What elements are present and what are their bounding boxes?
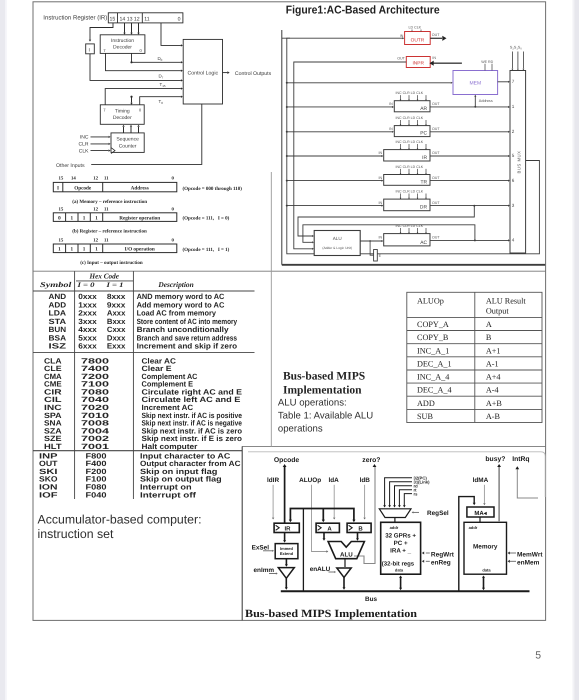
svg-text:ISZ: ISZ	[49, 342, 67, 351]
wire decoder D0 to control logic	[132, 53, 181, 62]
register INPR	[397, 56, 436, 68]
register B	[347, 523, 371, 532]
svg-text:A-1: A-1	[486, 359, 499, 368]
wire PC out to bus mux input 2	[430, 131, 508, 133]
wire GPR data to bus (bidirectional)	[400, 577, 402, 589]
hex table header underline	[33, 290, 255, 292]
svg-text:1: 1	[95, 215, 98, 221]
wire timing T0 to control logic	[140, 97, 181, 105]
wire timing T15 to control logic	[105, 89, 181, 105]
svg-text:Halt computer: Halt computer	[142, 442, 198, 451]
svg-text:enImm: enImm	[254, 567, 275, 574]
register file 32 GPRs	[381, 522, 421, 574]
svg-text:A+1: A+1	[486, 346, 501, 355]
register MA	[467, 507, 494, 517]
wire ldB control	[364, 485, 366, 518]
wire bus feed to AR	[287, 106, 392, 108]
wire bus feed to IR	[287, 155, 382, 157]
svg-text:ldIR: ldIR	[267, 477, 279, 484]
register IR (mips)	[274, 523, 299, 532]
svg-text:AR: AR	[420, 106, 427, 112]
svg-text:4: 4	[512, 238, 515, 243]
svg-text:Description: Description	[157, 280, 193, 289]
register PC	[389, 116, 440, 137]
wire busy? up from memory	[498, 467, 500, 522]
svg-text:PC: PC	[420, 131, 427, 137]
svg-text:IN: IN	[379, 236, 383, 240]
wire other inputs to control logic bottom	[91, 104, 202, 164]
register OUTR	[400, 26, 440, 45]
svg-text:INC CLR LD CLK: INC CLR LD CLK	[396, 91, 424, 95]
svg-text:1: 1	[95, 247, 98, 253]
wire bus-mux output feedback loop	[287, 38, 540, 254]
hex table group 1 rows	[49, 292, 238, 350]
wire enALU driver to bus	[343, 577, 345, 588]
slide outer border	[33, 2, 546, 621]
svg-text:(Adder & Logic Unit): (Adder & Logic Unit)	[322, 246, 352, 250]
svg-text:Register operation: Register operation	[119, 215, 160, 221]
svg-text:Table 1: Available ALU: Table 1: Available ALU	[278, 410, 373, 421]
svg-text:OUT: OUT	[432, 151, 440, 155]
svg-text:1: 1	[83, 247, 86, 253]
svg-text:IN: IN	[432, 56, 436, 60]
svg-text:Decoder: Decoder	[113, 45, 132, 51]
svg-text:WE RD: WE RD	[481, 60, 493, 64]
svg-text:Address: Address	[479, 99, 493, 103]
svg-text:zero?: zero?	[362, 457, 380, 464]
driver enALU (tri-state)	[337, 568, 351, 577]
wire B to ALU	[357, 533, 359, 540]
svg-text:5: 5	[535, 649, 541, 661]
wire bus feed to PC	[287, 131, 392, 133]
svg-text:Sequence: Sequence	[116, 137, 139, 143]
svg-text:7001: 7001	[81, 442, 110, 451]
wire I to control logic	[90, 54, 181, 81]
wire OUTR out arrow	[430, 37, 442, 39]
svg-text:14 13 12: 14 13 12	[120, 16, 140, 22]
node mux input numbers	[512, 79, 515, 243]
memory unit	[464, 522, 507, 574]
wire ALUOp control to ALU	[312, 485, 327, 552]
wire IR(14-12) to instruction decoder (3 lines)	[123, 23, 139, 35]
svg-text:enALU: enALU	[310, 566, 331, 573]
wires mux select lines	[511, 52, 524, 71]
svg-text:1: 1	[71, 215, 74, 221]
svg-text:B: B	[486, 333, 492, 342]
mux RegSel	[379, 509, 411, 518]
wire INC	[91, 136, 109, 138]
svg-text:A: A	[486, 320, 492, 329]
svg-text:14: 14	[71, 175, 76, 181]
svg-text:DR: DR	[420, 205, 428, 211]
svg-text:rs: rs	[414, 491, 419, 496]
svg-text:A-4: A-4	[486, 386, 499, 395]
svg-text:11: 11	[144, 16, 149, 22]
hex table divider line 1	[33, 352, 255, 354]
flip-flop I	[86, 44, 95, 54]
svg-text:SUB: SUB	[417, 412, 433, 421]
wire control outputs	[223, 72, 228, 74]
register format-c field box 1111|I/O operation	[53, 244, 177, 253]
svg-text:(Opcode = 111, I = 1): (Opcode = 111, I = 1)	[183, 247, 230, 253]
hex table column dividers	[74, 291, 76, 499]
svg-text:busy?: busy?	[485, 456, 505, 463]
wire INPR out down to ALU	[294, 62, 407, 249]
svg-text:I/O operation: I/O operation	[125, 247, 155, 253]
wire bus riser to distribution	[302, 509, 304, 592]
svg-text:OUT: OUT	[432, 102, 440, 106]
svg-text:Output: Output	[486, 307, 509, 316]
wire MEM address from AR bus	[474, 97, 476, 107]
wire distribution to IR/A/B	[290, 509, 354, 522]
wire TR out to bus mux input 6	[430, 180, 508, 182]
wire AC out branch to ALU input 2	[303, 225, 475, 243]
wire CLR	[91, 143, 109, 145]
register AR	[389, 91, 440, 112]
wire ldA control	[333, 485, 335, 518]
divider under instruction-format section	[33, 270, 546, 272]
svg-text:COPY_B: COPY_B	[417, 333, 449, 342]
sequence counter U4	[111, 133, 144, 153]
svg-text:ALU Result: ALU Result	[486, 296, 527, 305]
wire ALU to driver	[344, 559, 346, 567]
svg-text:12: 12	[93, 237, 98, 243]
svg-text:(32-bit regs: (32-bit regs	[382, 561, 415, 568]
svg-text:Bus: Bus	[365, 596, 378, 603]
svg-text:INC CLR LD CLK: INC CLR LD CLK	[396, 116, 424, 120]
svg-text:12: 12	[93, 206, 98, 212]
svg-text:Memory: Memory	[473, 544, 498, 551]
svg-text:RegSel: RegSel	[427, 510, 449, 517]
wire bus riser to MA	[459, 497, 474, 592]
svg-text:IN: IN	[379, 151, 383, 155]
svg-text:MA◂: MA◂	[474, 510, 487, 517]
svg-text:OUT: OUT	[432, 33, 440, 37]
driver enImm (tri-state)	[278, 568, 294, 579]
svg-text:A+4: A+4	[486, 373, 501, 382]
svg-text:15: 15	[59, 237, 64, 243]
table ALUOp	[407, 292, 542, 422]
wire enImm driver to bus	[285, 578, 287, 588]
figure1 frame left/bottom	[281, 30, 283, 265]
svg-text:I: I	[89, 47, 90, 53]
svg-text:PC +: PC +	[394, 540, 408, 547]
svg-text:(a) Memory – reference instruc: (a) Memory – reference instruction	[72, 199, 147, 205]
svg-text:MemWrt: MemWrt	[517, 551, 543, 558]
svg-text:IN: IN	[389, 127, 393, 131]
svg-text:enReg: enReg	[431, 560, 451, 567]
register IR (bit-field box 15|14 13 12|11..0)	[108, 13, 183, 23]
register DR	[379, 190, 441, 211]
svg-text:A-B: A-B	[486, 412, 501, 421]
svg-text:32 GPRs +: 32 GPRs +	[385, 532, 416, 539]
svg-text:DEC_A_4: DEC_A_4	[417, 386, 452, 395]
wire DR out to bus mux input 3	[430, 205, 508, 207]
timing decoder U3	[100, 105, 144, 125]
vertical divider left of mips picture	[241, 446, 243, 620]
svg-text:INC_A_4: INC_A_4	[417, 373, 449, 382]
mux BUS MUX	[510, 71, 526, 254]
svg-text:HLT: HLT	[44, 442, 62, 451]
flip-flop E	[370, 241, 373, 255]
svg-text:A+B: A+B	[486, 399, 503, 408]
svg-text:Extend: Extend	[280, 551, 294, 556]
divider above INP row / mips picture	[33, 450, 242, 452]
svg-text:A: A	[327, 526, 332, 533]
svg-text:OUT: OUT	[397, 57, 405, 61]
register IR	[379, 140, 441, 161]
svg-text:ldA: ldA	[329, 477, 340, 484]
svg-text:IOF: IOF	[39, 490, 58, 499]
svg-text:addr: addr	[390, 525, 399, 530]
vertical divider right of hex table	[270, 172, 272, 446]
wire RegSel to GPR addr	[394, 518, 396, 523]
wire ldMA control	[483, 485, 485, 503]
svg-text:F040: F040	[86, 490, 107, 499]
svg-text:ALUOp: ALUOp	[417, 296, 444, 305]
svg-text:12: 12	[93, 175, 98, 181]
svg-text:IN: IN	[379, 176, 383, 180]
svg-text:Other Inputs: Other Inputs	[56, 163, 85, 169]
svg-text:IRA + _: IRA + _	[390, 547, 411, 554]
svg-text:B: B	[358, 526, 363, 533]
svg-text:(Opcode = 111, I = 0): (Opcode = 111, I = 0)	[183, 216, 230, 222]
svg-text:Opcode: Opcode	[274, 457, 300, 464]
wire IntRq	[517, 469, 538, 499]
register A	[316, 523, 339, 532]
svg-text:IN: IN	[379, 201, 383, 205]
svg-text:TR: TR	[420, 179, 427, 185]
svg-text:5: 5	[512, 153, 515, 158]
wire IR out to bus mux input 5	[430, 155, 508, 157]
svg-text:instruction set: instruction set	[38, 527, 114, 541]
svg-text:DEC_A_1: DEC_A_1	[417, 359, 452, 368]
svg-text:6xxx: 6xxx	[78, 342, 97, 351]
left viewer strip	[0, 0, 5, 700]
svg-text:addr: addr	[469, 525, 478, 530]
wire memory data to bus (bidirectional)	[483, 577, 485, 589]
register TR	[379, 165, 441, 185]
svg-text:LD CLK: LD CLK	[409, 26, 422, 30]
svg-text:IN: IN	[389, 102, 393, 106]
svg-text:INC: INC	[80, 135, 89, 141]
svg-text:I: I	[57, 186, 59, 192]
right viewer strip	[573, 0, 575, 700]
svg-text:INC_A_1: INC_A_1	[417, 346, 449, 355]
svg-text:15: 15	[59, 206, 64, 212]
wire AR out to bus mux input 1	[430, 106, 508, 108]
svg-text:IntRq: IntRq	[512, 456, 529, 463]
svg-text:INC CLR LD CLK: INC CLR LD CLK	[396, 140, 424, 144]
svg-text:15: 15	[59, 175, 64, 181]
svg-text:ALUOp: ALUOp	[299, 477, 321, 484]
wire zero? up from ALU	[354, 467, 375, 564]
register AC	[379, 224, 441, 246]
wire IR(11-0) to control logic	[161, 23, 181, 46]
wire DR out branch to ALU input 1	[298, 206, 474, 236]
svg-text:1: 1	[83, 215, 86, 221]
svg-text:11: 11	[104, 175, 109, 181]
ALU (Adder and Logic Unit)	[314, 231, 360, 256]
mips picture frame top (rounded)	[248, 452, 545, 497]
svg-text:E: E	[379, 254, 382, 258]
svg-text:INC CLR LD CLK: INC CLR LD CLK	[396, 190, 424, 194]
wire A to ALU	[323, 533, 325, 540]
wire AC out to bus mux input 4	[430, 239, 508, 241]
svg-text:(Opcode = 000 through 110): (Opcode = 000 through 110)	[183, 186, 243, 192]
svg-text:Exxx: Exxx	[107, 342, 126, 351]
instruction decoder U1	[100, 35, 145, 54]
svg-text:OUT: OUT	[432, 127, 440, 131]
wire CLK with clock wedge	[91, 150, 109, 152]
svg-text:1: 1	[58, 247, 61, 253]
wire IR(15) to I flip-flop	[90, 23, 113, 40]
hex table group 2 rows	[44, 356, 242, 451]
wire INPR input from right	[434, 62, 462, 64]
svg-text:ALU operations:: ALU operations:	[278, 397, 347, 408]
wire MEM out to bus mux input 7	[498, 81, 508, 83]
svg-text:OUT: OUT	[432, 236, 440, 240]
svg-text:11: 11	[104, 237, 109, 243]
svg-text:IR: IR	[422, 155, 427, 161]
svg-text:COPY_A: COPY_A	[417, 320, 449, 329]
svg-text:enMem: enMem	[517, 560, 540, 567]
svg-text:Figure1:AC-Based Architecture: Figure1:AC-Based Architecture	[286, 5, 440, 17]
svg-text:BUS MUX: BUS MUX	[517, 150, 522, 173]
wire bus feed to OUTR	[282, 37, 403, 39]
svg-text:Address: Address	[131, 186, 149, 192]
wire Opcode up from IR	[284, 467, 286, 524]
svg-text:Interrupt off: Interrupt off	[140, 490, 197, 499]
wires register-select nest (32(PC),31(Link),rd,rt,rs)	[383, 476, 430, 508]
svg-text:Counter: Counter	[119, 143, 137, 149]
svg-text:Decoder: Decoder	[113, 115, 132, 121]
wire bus feed to DR	[287, 205, 382, 207]
memory MEM	[453, 60, 498, 95]
svg-text:operations: operations	[278, 424, 323, 435]
svg-text:7: 7	[512, 79, 515, 84]
svg-text:ADD: ADD	[417, 399, 435, 408]
svg-text:Opcode: Opcode	[74, 186, 92, 192]
svg-text:I = 1: I = 1	[105, 282, 123, 289]
svg-text:2: 2	[512, 129, 515, 134]
wire bus feed to TR	[287, 180, 382, 182]
svg-text:Increment and skip if zero: Increment and skip if zero	[137, 342, 238, 351]
svg-text:ldMA: ldMA	[473, 477, 489, 484]
svg-text:data: data	[482, 568, 491, 573]
svg-text:Instruction: Instruction	[111, 38, 134, 44]
svg-text:Bus-based MIPS Implementation: Bus-based MIPS Implementation	[245, 608, 417, 620]
svg-text:Symbol: Symbol	[40, 280, 73, 289]
svg-text:6: 6	[512, 178, 515, 183]
wire MA to memory addr	[479, 517, 481, 522]
control logic U2	[183, 39, 222, 104]
svg-text:INPR: INPR	[412, 61, 424, 67]
svg-text:1: 1	[512, 104, 515, 109]
svg-text:Instruction Register (IR): Instruction Register (IR)	[43, 15, 107, 22]
register format-b field box 0111|Register operation	[53, 213, 177, 222]
svg-text:1: 1	[71, 247, 74, 253]
svg-text:Bus-based MIPS: Bus-based MIPS	[283, 371, 365, 383]
svg-text:I = 0: I = 0	[76, 282, 95, 289]
svg-text:MEM: MEM	[469, 81, 481, 87]
svg-text:Accumulator-based computer:: Accumulator-based computer:	[38, 513, 202, 527]
svg-text:RegWrt: RegWrt	[431, 551, 455, 558]
svg-text:Control Logic: Control Logic	[188, 70, 219, 76]
hex table header box	[74, 271, 76, 291]
sign extender Immed Extend	[275, 544, 298, 559]
svg-text:AC: AC	[420, 240, 427, 246]
svg-text:11: 11	[104, 206, 109, 212]
svg-text:data: data	[395, 568, 404, 573]
svg-text:(b) Register – reference instr: (b) Register – reference instruction	[72, 229, 147, 235]
svg-text:3: 3	[512, 203, 515, 208]
svg-text:IR: IR	[285, 526, 292, 533]
svg-text:ALU: ALU	[333, 236, 342, 241]
svg-text:OUT: OUT	[432, 201, 440, 205]
wire decoder D7 to control logic	[106, 53, 181, 70]
wire stub into timing decoder top	[131, 97, 133, 103]
svg-text:Control Outputs: Control Outputs	[235, 71, 272, 77]
svg-text:OUT: OUT	[432, 176, 440, 180]
svg-text:ldB: ldB	[360, 477, 371, 484]
svg-text:(c) Input – output instruction: (c) Input – output instruction	[80, 260, 143, 266]
wire ldIR control	[272, 485, 274, 518]
svg-text:Implementation: Implementation	[283, 385, 362, 397]
wire ALU out to AC in	[360, 240, 381, 242]
svg-text:0: 0	[58, 215, 61, 221]
wire IR to Immed Extend	[284, 533, 286, 542]
register format-a field box I|Opcode|Address	[53, 182, 177, 191]
svg-text:0: 0	[178, 16, 181, 22]
svg-text:ALU: ALU	[340, 551, 353, 558]
svg-text:INC CLR LD CLK: INC CLR LD CLK	[396, 165, 424, 169]
svg-text:Hex Code: Hex Code	[89, 272, 120, 281]
hex table group 3 rows	[39, 451, 241, 499]
svg-text:CLR: CLR	[78, 142, 88, 148]
svg-text:15: 15	[110, 16, 116, 22]
wire Immed Extend to driver	[285, 559, 287, 566]
svg-text:OUTR: OUTR	[411, 37, 425, 43]
wire bus feed to MEM	[287, 82, 451, 84]
bus (main)	[281, 590, 530, 592]
wires sequence counter to timing decoder	[122, 125, 139, 133]
svg-text:Timing: Timing	[115, 109, 130, 115]
ALU (mips)	[328, 542, 364, 559]
svg-text:CLK: CLK	[79, 149, 89, 155]
